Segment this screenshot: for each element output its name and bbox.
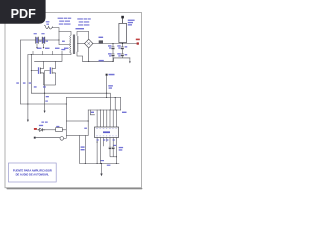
svg-text:DE AUDIO DE AUTOMOVIL: DE AUDIO DE AUTOMOVIL [16,173,50,177]
capacitor C8 lower [121,54,124,58]
IC pin ticks [96,128,116,136]
ground chassis [129,58,131,62]
label C5 C6 plus marks [108,45,111,56]
wire B+ rail [93,43,138,45]
label above rail [101,160,111,166]
capacitor C10 [112,147,115,157]
junction dots output rails [88,43,123,62]
wire ground stem [101,163,103,173]
label D5 [39,125,43,126]
label R1 [128,20,135,26]
IC pins bottom [97,138,116,164]
diode D5 [37,128,55,131]
capacitor C7 upper [121,44,124,55]
label under 0V rail [99,60,104,61]
inductor L1 on B+ rail [99,40,103,43]
bridge rectifier BR1 [85,39,93,48]
note text 1 [58,18,72,25]
wire out arrow left [27,55,29,120]
note text 2 [77,18,90,25]
wire gate drive Q2 [44,71,46,111]
transistor Q1 [31,61,43,85]
bus junction dots IC [88,109,117,121]
PDF badge [0,0,46,24]
wire left drop [20,40,22,104]
svg-text:PDF: PDF [11,7,36,21]
micro labels near gate drive [41,101,47,123]
wire loop drop [87,110,89,121]
wire pin1 stub [90,110,94,115]
IC pins top [97,110,116,127]
wire rail drops [80,136,86,164]
label F1 [46,21,50,25]
capacitor C9 [109,147,112,157]
label C1 C2 [39,41,48,42]
label B+ [136,39,140,41]
title block [9,163,57,182]
wire bus y97.5 [66,97,120,99]
wire gate drive Q1 [30,55,32,94]
label tap [61,41,65,51]
junction dot input [58,39,59,40]
transistor Q2 [45,61,56,85]
wire caps join [110,156,116,158]
svg-text:FUENTE PARA AMPLIFICADOR: FUENTE PARA AMPLIFICADOR [13,168,52,172]
wire terminal drop [106,76,108,98]
wire mosfet top rail [35,55,63,62]
wire caps to corner [45,39,59,41]
transformer T1 [70,35,79,55]
wire secondary to bridge ac [78,43,85,45]
potentiometer P1 [60,136,66,141]
label C7b [81,146,85,150]
resistor R8 [56,126,67,132]
wire top rail to transformer primary [59,32,71,36]
label T1 [76,28,85,29]
junction dot pin1 [97,142,98,143]
label IC top right [122,112,127,113]
ground arrow rail end [129,61,131,63]
terminal B+ [137,42,139,44]
wire bus y93.2 [31,93,110,110]
label P1 [84,128,87,129]
wire ground rail [80,162,119,164]
snubber labels row [37,48,69,49]
wire loop feed x66.3 [65,98,67,122]
loop box around feedback [66,121,88,136]
page background [0,0,149,198]
arrowhead out 2 [44,111,46,114]
wire drop x120.7 [120,98,122,111]
label L1 [99,37,104,38]
wire fuse to corner [52,27,69,45]
terminal B- and wire to pot [34,137,60,139]
wire input line [21,39,36,41]
label IC pins bottom [97,139,115,140]
wire 0V rail [83,48,130,62]
labels above input caps [34,33,45,34]
label +B [34,128,37,130]
fuse F1 [45,26,52,29]
page sheet border with shadow [5,13,142,188]
wire bus y110 [88,109,121,111]
label GND terminal [109,74,115,76]
arrowhead out 1 [27,120,29,123]
wire transformer secondary top to bridge [77,32,89,40]
label R7 [108,85,113,89]
wire between caps [38,39,42,41]
junction bus dots [27,54,115,104]
capacitor C1 [36,37,38,49]
label IC left [91,112,94,113]
capacitor C6 lower [112,54,115,61]
wire bus y104 [21,103,67,105]
wire drain join [44,84,56,86]
label C9 C10 [114,145,124,151]
wire fuse input [44,24,47,27]
terminal R1 top [121,16,124,19]
capacitor C2 [42,37,44,49]
IC U1 SG3525 [95,127,119,138]
wire primary bottom [28,53,71,55]
snubber stubs [33,51,62,55]
rail junction dots [85,163,117,164]
wire drop x115.2 [114,98,116,111]
capacitor C5 upper [112,44,115,55]
resistor R1 [119,16,135,44]
net labels on verticals [16,82,49,97]
ground arrow [100,174,102,177]
wire secondary bottom [77,52,83,61]
label C7 C8 plus marks [117,45,127,56]
terminal GND mid [106,74,108,76]
